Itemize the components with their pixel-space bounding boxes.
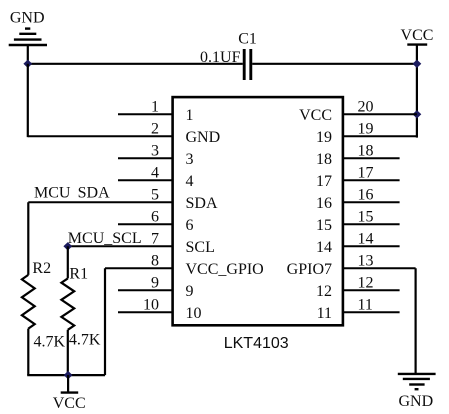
svg-text:VCC_GPIO: VCC_GPIO: [186, 261, 264, 278]
svg-text:R2: R2: [32, 260, 51, 277]
svg-text:4.7K: 4.7K: [34, 334, 66, 351]
pin 15 wire: [343, 223, 400, 225]
svg-text:SDA: SDA: [186, 195, 218, 212]
svg-text:8: 8: [151, 252, 159, 269]
svg-text:17: 17: [316, 173, 332, 190]
svg-text:C1: C1: [238, 30, 257, 47]
power VCC (top-right): [407, 43, 427, 45]
svg-text:GPIO7: GPIO7: [287, 261, 332, 278]
svg-text:3: 3: [151, 142, 159, 159]
svg-text:15: 15: [316, 217, 332, 234]
pin 20 wire (VCC): [343, 113, 417, 115]
svg-text:20: 20: [358, 98, 374, 115]
svg-text:12: 12: [358, 274, 374, 291]
power VCC (bottom): [61, 391, 78, 393]
svg-text:5: 5: [151, 186, 159, 203]
junction: VCC vertical with pin 20 wire: [413, 110, 422, 118]
wire: VCC vertical down to pin 19 wire: [416, 45, 418, 138]
junction at top-left rail: [23, 60, 32, 68]
svg-text:11: 11: [317, 305, 332, 322]
svg-text:MCU_SCL: MCU_SCL: [68, 230, 142, 247]
svg-text:15: 15: [358, 208, 374, 225]
IC U1 LKT4103 body: [173, 97, 343, 325]
svg-text:11: 11: [358, 296, 373, 313]
pin 1 wire: [118, 113, 173, 115]
svg-text:16: 16: [358, 186, 374, 203]
pin 16 wire: [343, 201, 400, 203]
pin 14 wire: [343, 245, 400, 247]
svg-text:SCL: SCL: [186, 239, 215, 256]
svg-text:3: 3: [186, 151, 194, 168]
svg-text:17: 17: [358, 164, 374, 181]
svg-text:GND: GND: [186, 129, 221, 146]
svg-text:12: 12: [316, 283, 332, 300]
pin 9 wire: [118, 289, 173, 291]
svg-text:4: 4: [151, 164, 159, 181]
svg-text:18: 18: [316, 151, 332, 168]
pin 8 wire (VCC_GPIO): [105, 267, 173, 269]
svg-text:7: 7: [151, 230, 159, 247]
svg-text:4.7K: 4.7K: [69, 331, 101, 348]
wire: vertical from junction down to pin 2 wire: [27, 64, 29, 137]
svg-text:14: 14: [358, 230, 374, 247]
pin 18 wire: [343, 157, 400, 159]
svg-text:9: 9: [151, 274, 159, 291]
svg-text:1: 1: [186, 107, 194, 124]
svg-text:VCC: VCC: [299, 107, 332, 124]
junction: VCC vertical with top rail: [413, 60, 422, 68]
junction: bottom rail with R1 and VCC stub: [64, 371, 73, 379]
svg-text:MCU SDA: MCU SDA: [34, 184, 110, 201]
pin 7 wire (MCU_SCL): [68, 245, 173, 247]
svg-text:LKT4103: LKT4103: [224, 335, 289, 352]
svg-text:VCC: VCC: [53, 395, 86, 412]
svg-text:9: 9: [186, 283, 194, 300]
pin 2 wire (GND): [28, 135, 173, 137]
wire: top-left ground vertical down to top rail junction: [27, 45, 29, 64]
resistor R2: [22, 202, 35, 375]
wire: top rail right segment (C1 right plate to VCC vertical): [252, 63, 417, 65]
pin 13 wire (GPIO7 to ground): [343, 267, 416, 269]
pin 5 wire (MCU SDA): [28, 201, 172, 203]
svg-text:14: 14: [316, 239, 332, 256]
svg-text:10: 10: [143, 296, 159, 313]
pin 3 wire: [118, 157, 173, 159]
wire: pin 8 vertical down to bottom rail: [104, 268, 106, 375]
svg-text:GND: GND: [398, 393, 433, 410]
pin 6 wire: [118, 223, 173, 225]
svg-text:GND: GND: [10, 10, 45, 27]
svg-text:4: 4: [186, 173, 194, 190]
pin 10 wire: [118, 311, 173, 313]
pin 11 wire: [343, 311, 400, 313]
svg-text:10: 10: [186, 305, 202, 322]
svg-text:0.1UF: 0.1UF: [200, 49, 241, 66]
svg-text:VCC: VCC: [401, 27, 434, 44]
svg-text:18: 18: [358, 142, 374, 159]
svg-text:6: 6: [151, 208, 159, 225]
ground (bottom-right earth symbol): [398, 374, 436, 389]
svg-text:R1: R1: [69, 265, 88, 282]
wire: bottom rail (R2 to pin 8 vertical): [27, 374, 105, 376]
svg-text:16: 16: [316, 195, 332, 212]
pin 17 wire: [343, 179, 400, 181]
pin 19 wire: [343, 135, 417, 137]
svg-text:6: 6: [186, 217, 194, 234]
svg-text:2: 2: [151, 120, 159, 137]
svg-text:19: 19: [358, 120, 374, 137]
wire: VCC stub below bottom rail: [67, 375, 69, 393]
wire: top rail left segment (junction to C1 left plate): [27, 63, 243, 65]
wire: pin 13 vertical down to bottom-right ground: [415, 268, 417, 374]
pin 12 wire: [343, 289, 400, 291]
resistor R1: [61, 246, 74, 375]
ground (top-left, flipped earth symbol): [9, 29, 47, 45]
svg-text:1: 1: [151, 98, 159, 115]
pin 4 wire: [118, 179, 173, 181]
junction: pin 7 wire with R1 top: [63, 242, 72, 250]
capacitor C1 plates: [244, 49, 251, 80]
svg-text:13: 13: [358, 252, 374, 269]
svg-text:19: 19: [316, 129, 332, 146]
